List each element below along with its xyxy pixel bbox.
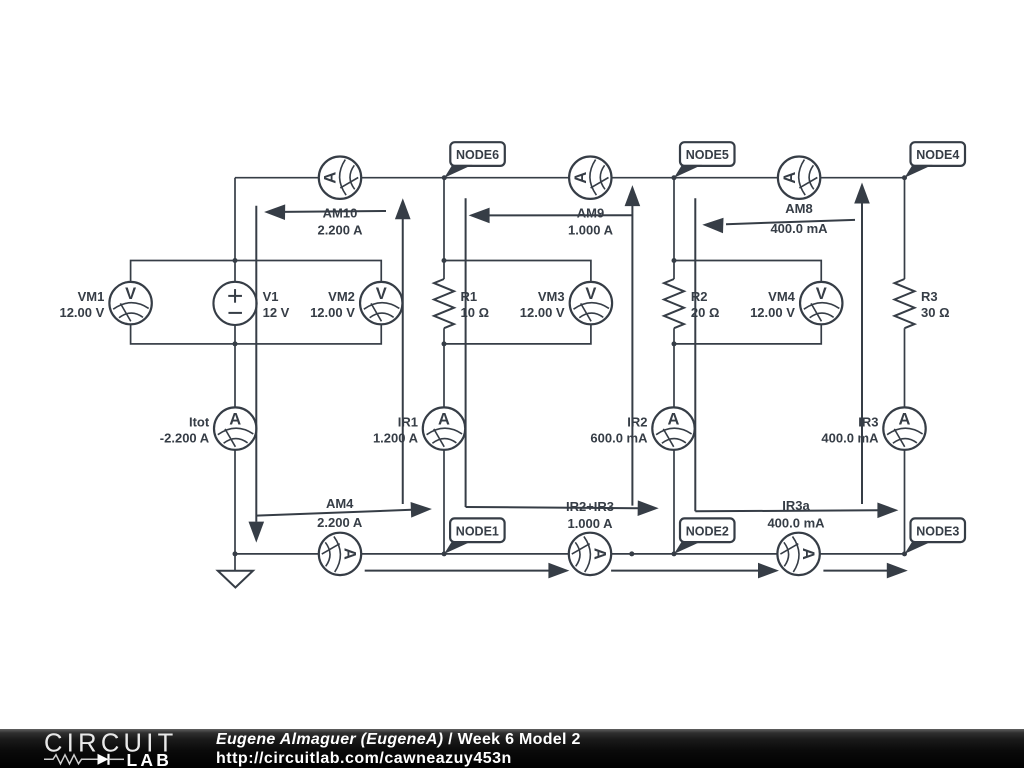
svg-text:V: V [125, 285, 136, 303]
svg-text:AM8: AM8 [785, 201, 812, 216]
CircuitLab logo [40, 729, 190, 768]
current arrow bottom wire 2 [611, 563, 779, 579]
junction ground [233, 551, 238, 556]
svg-text:12.00 V: 12.00 V [750, 305, 795, 320]
svg-text:V: V [376, 285, 387, 303]
current arrow IR1 up [395, 198, 411, 504]
footer title [216, 729, 581, 768]
junction V1 box bottom [233, 341, 238, 346]
label AM10 2.200 A [317, 206, 363, 238]
svg-text:IR2: IR2 [627, 414, 647, 429]
label AM8 400.0 mA [770, 201, 828, 236]
svg-text:VM4: VM4 [768, 289, 796, 304]
svg-text:IR3a: IR3a [782, 498, 810, 513]
node NODE3 [905, 518, 966, 554]
svg-text:A: A [590, 548, 608, 560]
voltmeter VM1 [109, 282, 151, 324]
resistor R1 [434, 279, 454, 328]
label R3 30 Ω [921, 289, 950, 320]
svg-text:A: A [572, 172, 590, 184]
voltmeter VM4 [800, 282, 842, 324]
svg-text:A: A [229, 410, 241, 428]
svg-text:AM4: AM4 [326, 496, 354, 511]
ammeter bottom right [777, 533, 819, 575]
ammeter IR1 [423, 407, 465, 449]
resistor R3 [895, 279, 915, 328]
svg-text:NODE5: NODE5 [686, 148, 729, 162]
svg-text:IR1: IR1 [398, 414, 418, 429]
wire R2-VM4 parallel box [674, 261, 821, 344]
junction V1 box top [233, 258, 238, 263]
svg-text:LAB: LAB [127, 750, 173, 768]
label R2 20 Ω [691, 289, 720, 320]
svg-text:A: A [322, 172, 340, 184]
wire R3 branch upper [904, 178, 906, 279]
resistor R2 [664, 279, 684, 328]
node NODE2 [674, 518, 735, 554]
svg-text:NODE1: NODE1 [456, 524, 499, 538]
voltmeter VM3 [570, 282, 612, 324]
ammeter IR2 [652, 407, 694, 449]
current arrow bottom wire 1 [365, 563, 570, 579]
svg-text:A: A [799, 548, 817, 560]
current arrow IR2+IR3 [466, 198, 659, 516]
node NODE4 [905, 142, 966, 178]
current arrow AM4 [256, 502, 432, 518]
ammeter AM10 [319, 157, 361, 199]
svg-text:A: A [781, 172, 799, 184]
wire R1-VM3 parallel box [444, 261, 591, 344]
svg-text:A: A [899, 410, 911, 428]
svg-text:A: A [340, 548, 358, 560]
label VM4 12.00 V [750, 289, 796, 320]
ammeter AM8 [778, 157, 820, 199]
node NODE6 [444, 142, 505, 178]
svg-text:12.00 V: 12.00 V [310, 305, 355, 320]
svg-text:NODE6: NODE6 [456, 148, 499, 162]
svg-text:1.000 A: 1.000 A [568, 222, 614, 237]
svg-text:VM3: VM3 [538, 289, 565, 304]
junction node NODE5 [672, 175, 677, 180]
svg-text:R3: R3 [921, 289, 938, 304]
ammeter IR3 [883, 407, 925, 449]
label VM2 12.00 V [310, 289, 355, 320]
svg-text:600.0 mA: 600.0 mA [590, 430, 648, 445]
svg-text:12 V: 12 V [263, 305, 290, 320]
ammeter AM9 [569, 157, 611, 199]
junction R1 box bottom [442, 341, 447, 346]
junction node NODE1 [442, 551, 447, 556]
svg-text:-2.200 A: -2.200 A [160, 430, 210, 445]
current arrow Itot down [249, 206, 265, 543]
junction R2 box bottom [672, 341, 677, 346]
label AM9 1.000 A [568, 206, 614, 238]
svg-text:30 Ω: 30 Ω [921, 305, 950, 320]
svg-text:V: V [585, 285, 596, 303]
junction node NODE6 [442, 175, 447, 180]
wire V1 branch vertical [234, 178, 236, 554]
svg-text:VM1: VM1 [78, 289, 105, 304]
wire R2 branch lower [673, 328, 675, 554]
svg-text:NODE4: NODE4 [916, 148, 959, 162]
junction bottom wire [629, 551, 634, 556]
junction R2 box top [672, 258, 677, 263]
svg-text:12.00 V: 12.00 V [59, 305, 104, 320]
voltmeter VM2 [360, 282, 402, 324]
node NODE1 [444, 518, 505, 554]
wire bottom horizontal ground-NODE1-NODE2-NODE3 [235, 553, 906, 555]
ammeter Itot [214, 407, 256, 449]
wire R3 branch lower [904, 328, 906, 554]
svg-text:A: A [438, 410, 450, 428]
voltage source V1 [213, 282, 256, 325]
label AM4 2.200 A [317, 496, 363, 530]
svg-text:AM10: AM10 [323, 206, 358, 221]
current arrow IR3a [695, 198, 898, 518]
svg-text:400.0 mA: 400.0 mA [821, 430, 879, 445]
svg-text:NODE2: NODE2 [686, 524, 729, 538]
label V1 12 V [263, 289, 290, 320]
svg-text:400.0 mA: 400.0 mA [767, 516, 825, 531]
label IR3 400.0 mA [821, 414, 879, 445]
svg-text:12.00 V: 12.00 V [520, 305, 565, 320]
current arrow AM10 [264, 204, 386, 220]
ammeter AM4 [319, 533, 361, 575]
label IR2+IR3 1.000 A [566, 499, 614, 531]
wire R1 branch upper [443, 178, 445, 279]
svg-text:V1: V1 [263, 289, 279, 304]
svg-text:A: A [668, 410, 680, 428]
label IR3a 400.0 mA [767, 498, 825, 531]
junction node NODE3 [902, 551, 907, 556]
svg-text:V: V [816, 285, 827, 303]
junction node NODE4 [902, 175, 907, 180]
label Itot -2.200 A [160, 414, 210, 445]
footer bar [0, 729, 1024, 768]
svg-text:IR2+IR3: IR2+IR3 [566, 499, 614, 514]
svg-text:1.000 A: 1.000 A [567, 516, 613, 531]
label VM3 12.00 V [520, 289, 565, 320]
svg-text:R2: R2 [691, 289, 708, 304]
svg-text:2.200 A: 2.200 A [317, 222, 363, 237]
junction R1 box top [442, 258, 447, 263]
current arrow AM8 [702, 218, 855, 234]
svg-text:VM2: VM2 [328, 289, 355, 304]
wire VM1-VM2 parallel box [131, 261, 382, 344]
svg-text:400.0 mA: 400.0 mA [770, 221, 828, 236]
svg-text:2.200 A: 2.200 A [317, 515, 363, 530]
svg-text:R1: R1 [461, 289, 478, 304]
wire R2 branch upper [673, 178, 675, 279]
current arrow AM9 [469, 208, 633, 224]
ground [218, 554, 253, 588]
label R1 10 Ω [461, 289, 490, 320]
svg-text:AM9: AM9 [577, 206, 604, 221]
current arrow bottom wire 3 [823, 563, 907, 579]
label VM1 12.00 V [59, 289, 104, 320]
label IR1 1.200 A [373, 414, 419, 445]
ammeter bottom middle [569, 533, 611, 575]
current arrow IR3 up [854, 183, 870, 505]
current arrow IR2 up [625, 185, 641, 506]
svg-text:1.200 A: 1.200 A [373, 430, 419, 445]
wire R1 branch lower [443, 328, 445, 554]
svg-text:Itot: Itot [189, 414, 210, 429]
junction node NODE2 [672, 551, 677, 556]
svg-text:NODE3: NODE3 [916, 524, 959, 538]
wire top horizontal NODE6-NODE5-NODE4 [235, 177, 906, 179]
node NODE5 [674, 142, 735, 178]
label IR2 600.0 mA [590, 414, 648, 445]
